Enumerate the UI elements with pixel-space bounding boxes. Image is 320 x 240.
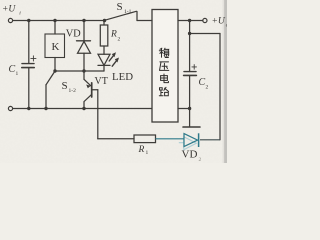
label R1 xyxy=(138,145,149,156)
wire C2 top xyxy=(189,34,191,72)
capacitor C2 xyxy=(184,65,197,109)
switch S1-1 contact xyxy=(136,12,138,21)
regulator box xyxy=(152,10,178,123)
node dot C1 top xyxy=(27,19,30,22)
wire K branch down xyxy=(54,21,56,35)
wire VD2 to right vertical xyxy=(200,139,220,141)
svg-text:LED: LED xyxy=(112,71,133,83)
svg-text:+U: +U xyxy=(212,17,226,27)
node dot VD top xyxy=(82,19,85,22)
char 稳 xyxy=(159,48,169,57)
wire S1-2 down xyxy=(45,85,47,109)
label S1-2 xyxy=(62,80,77,94)
node dot VT emitter xyxy=(82,69,85,72)
LED xyxy=(98,54,110,71)
wire C2 down to ground bar xyxy=(189,109,191,127)
ground bar xyxy=(183,126,200,128)
svg-text:VD: VD xyxy=(66,29,81,40)
switch S1-2 blade xyxy=(46,72,55,85)
resistor R2 xyxy=(100,25,108,46)
junction dots xyxy=(27,19,191,110)
char 电 xyxy=(161,74,169,83)
wire +Uo down branch xyxy=(189,21,191,34)
char 路 xyxy=(159,87,168,96)
node dot C2 bottom xyxy=(188,107,191,110)
svg-text:K: K xyxy=(52,41,60,53)
svg-text:2: 2 xyxy=(118,37,121,43)
label +Ui xyxy=(2,5,21,17)
wire top right across xyxy=(190,33,220,35)
wire S1-1 to box xyxy=(137,20,152,22)
svg-text:2: 2 xyxy=(206,85,209,91)
svg-text:1: 1 xyxy=(146,150,149,156)
node dot S1-2 top xyxy=(53,69,56,72)
capacitor C1 xyxy=(22,56,36,109)
svg-text:1-1: 1-1 xyxy=(124,9,132,15)
label S1-1 xyxy=(117,1,132,15)
node dot +Uo xyxy=(188,19,191,22)
wire VD branch down xyxy=(83,21,85,41)
svg-text:o: o xyxy=(226,23,227,29)
LED arrows xyxy=(109,54,118,66)
svg-text:C: C xyxy=(199,77,206,88)
wire VT base down to R1 (crosses rail) xyxy=(97,90,99,139)
node dot S1-1 xyxy=(103,19,106,22)
node dot right branch xyxy=(188,32,191,35)
wire top rail xyxy=(13,20,105,22)
node dot C1 bottom xyxy=(27,107,30,110)
svg-text:VD: VD xyxy=(182,149,198,161)
wire box right to C2 xyxy=(178,108,190,110)
svg-text:R: R xyxy=(110,30,117,40)
node dot VT collector xyxy=(82,107,85,110)
wire right vertical xyxy=(219,34,221,140)
wire box to output terminal xyxy=(178,20,203,22)
label C1 xyxy=(9,64,19,77)
resistor R1 xyxy=(134,135,156,143)
right scan edge band xyxy=(224,0,227,163)
VT emitter arrow xyxy=(86,85,90,89)
label R2 xyxy=(110,30,121,43)
wire R2 branch down xyxy=(103,21,105,26)
input terminal +Ui xyxy=(8,18,12,22)
relay coil K box xyxy=(45,34,65,58)
label C2 xyxy=(199,77,209,91)
svg-text:C: C xyxy=(9,64,16,75)
svg-text:VT: VT xyxy=(95,76,108,87)
wire node line y71 xyxy=(55,70,104,72)
transistor VT xyxy=(84,71,98,109)
svg-text:1-2: 1-2 xyxy=(69,88,77,94)
switch S1-1 blade xyxy=(105,11,137,20)
svg-text:S: S xyxy=(117,1,123,13)
node dot S1-2 bottom xyxy=(44,107,47,110)
svg-text:R: R xyxy=(138,145,145,155)
svg-text:1: 1 xyxy=(16,71,19,77)
diode VD2 (teal) xyxy=(156,133,221,149)
svg-text:S: S xyxy=(62,80,68,92)
svg-text:+U: +U xyxy=(2,5,16,15)
wire bottom rail xyxy=(13,108,152,110)
ground terminal circle xyxy=(8,106,12,110)
regulator box text 稳压电路 (hand-drawn glyphs) xyxy=(159,48,169,96)
wire K bottom to node xyxy=(54,58,56,72)
wire C1 branch down xyxy=(28,21,30,64)
label VD2 xyxy=(182,149,202,164)
diode VD xyxy=(77,41,91,71)
output terminal +Uo xyxy=(203,18,207,22)
char 压 xyxy=(160,62,169,71)
label +Uo xyxy=(212,17,229,29)
svg-text:2: 2 xyxy=(199,157,202,163)
node dot K top xyxy=(53,19,56,22)
wire R2 to LED xyxy=(103,46,105,54)
wire R1 lead left xyxy=(98,138,134,140)
paper background xyxy=(0,0,227,163)
